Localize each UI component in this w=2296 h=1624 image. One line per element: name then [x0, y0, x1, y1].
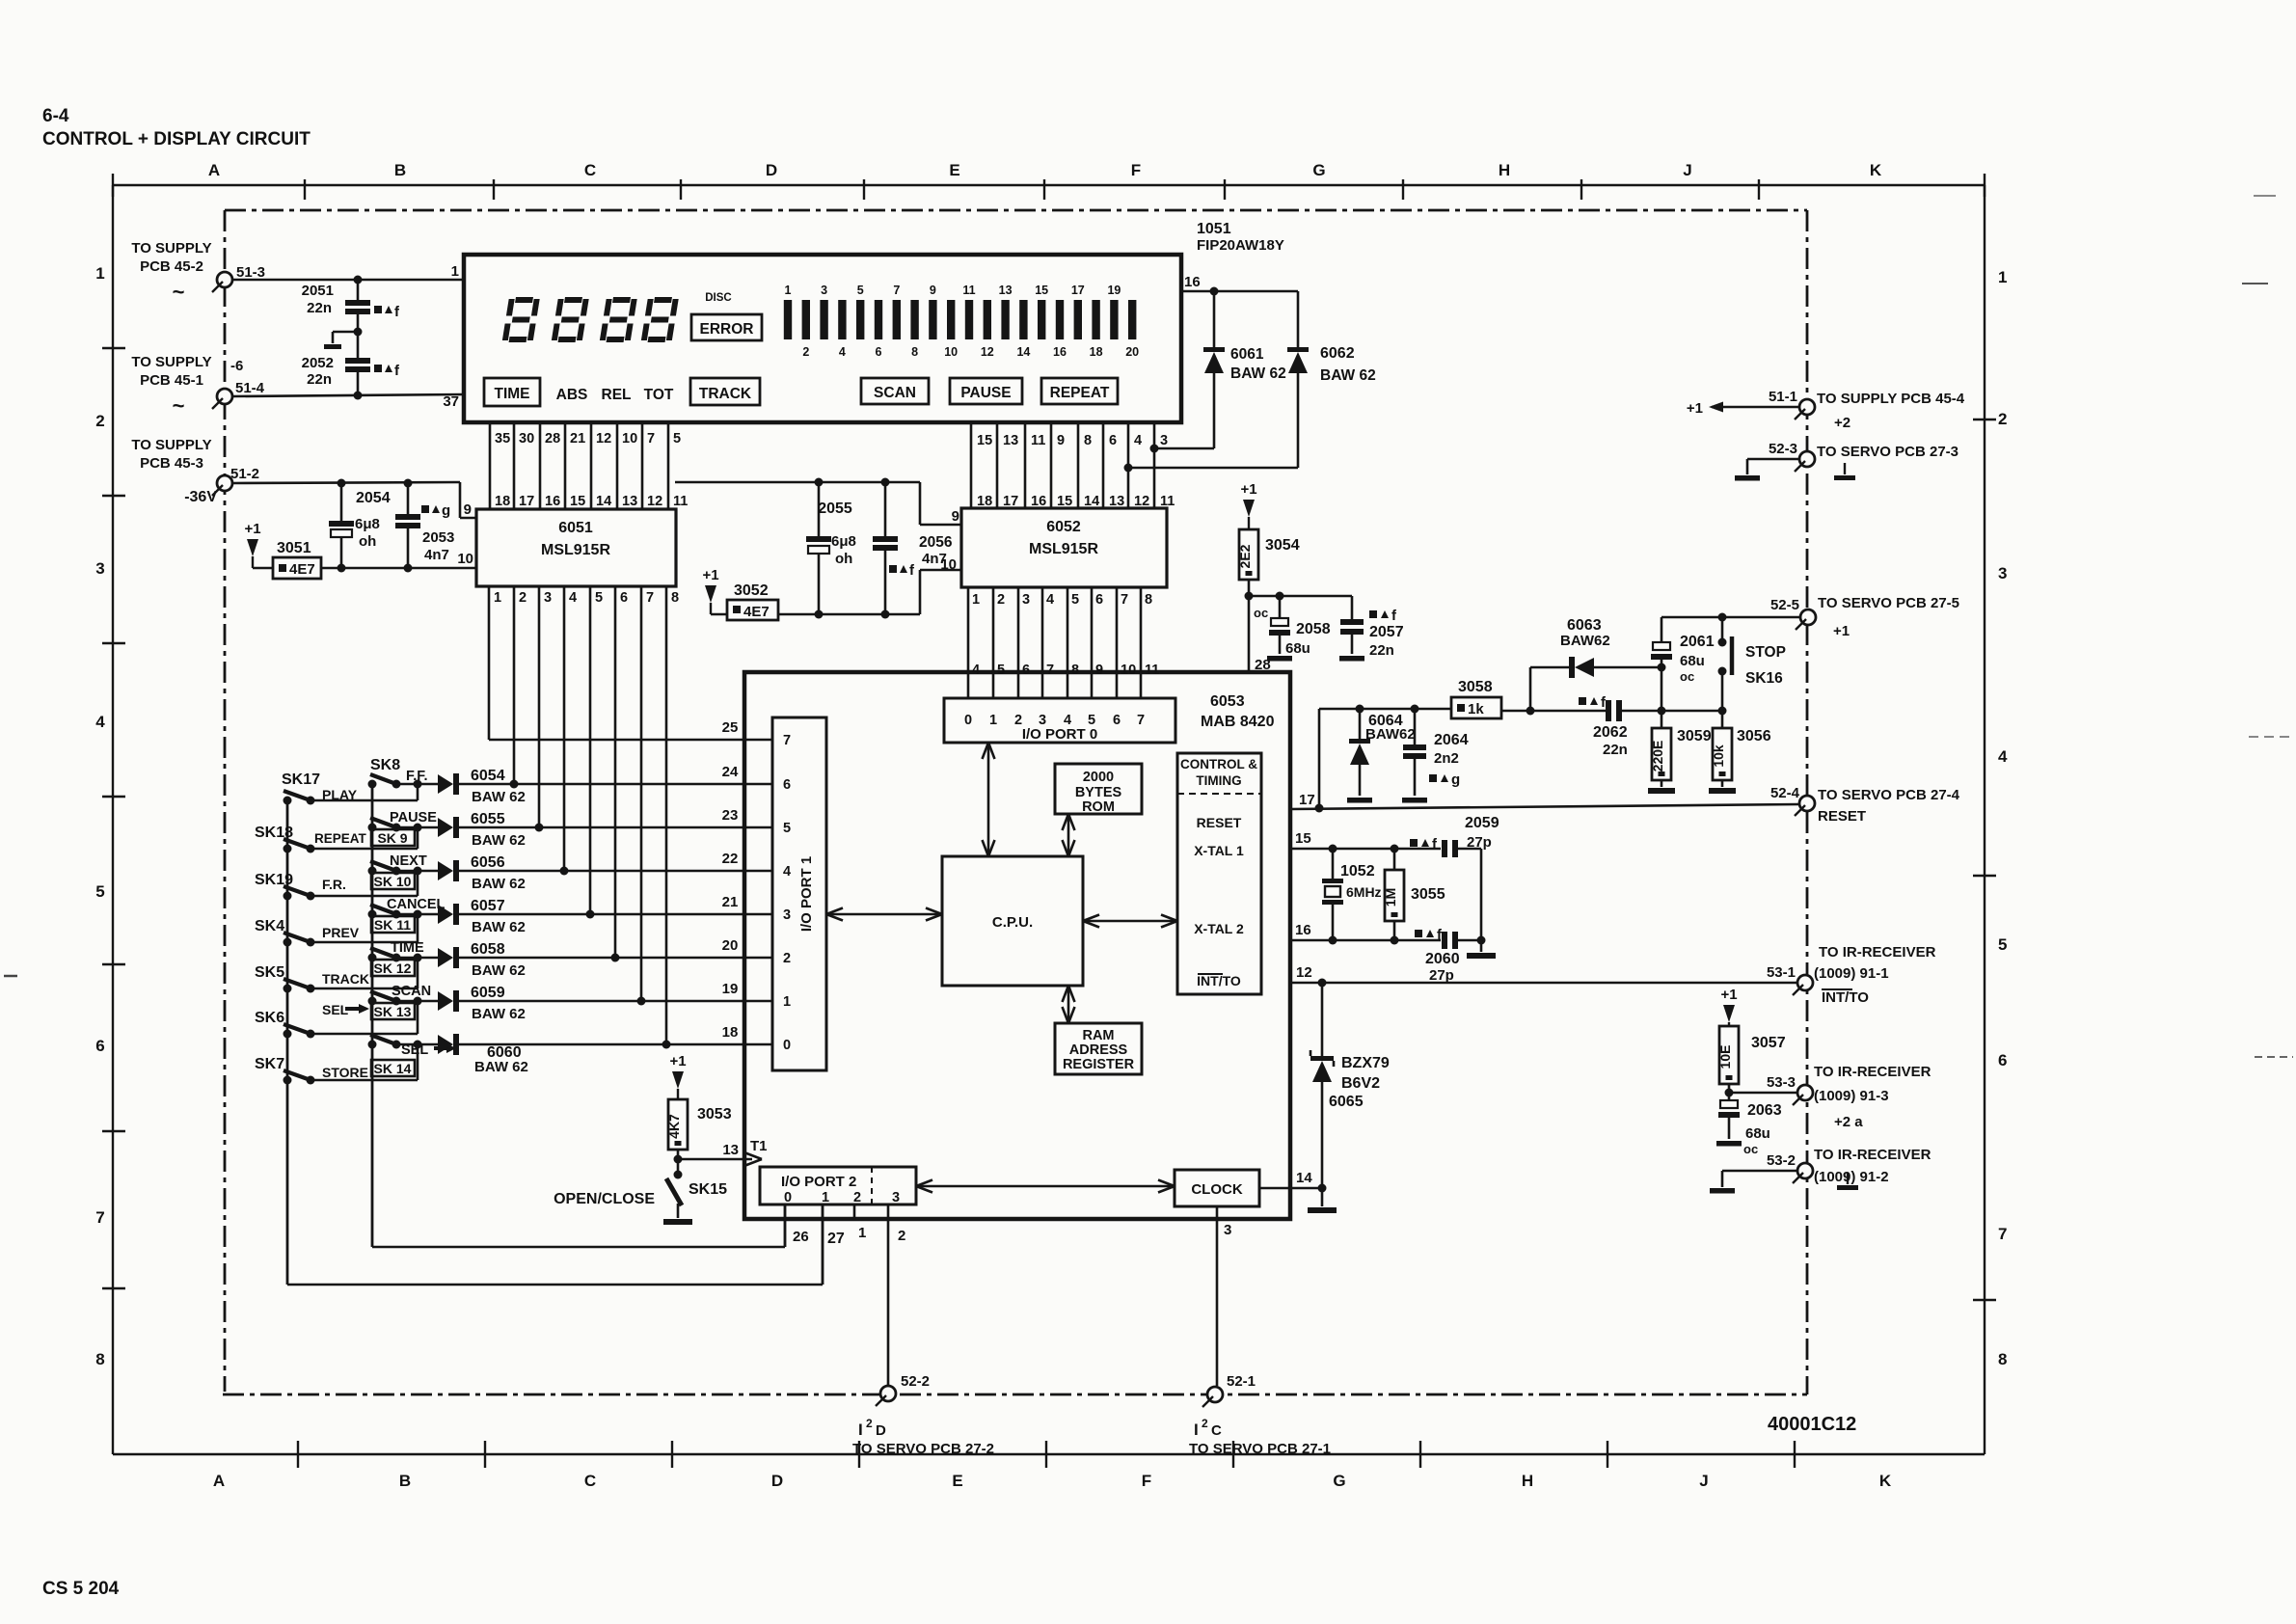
svg-text:PAUSE: PAUSE	[960, 385, 1011, 401]
svg-text:4: 4	[1998, 747, 2008, 766]
svg-text:1M: 1M	[1383, 888, 1398, 907]
svg-text:BAW 62: BAW 62	[472, 789, 526, 805]
svg-text:22n: 22n	[1603, 742, 1628, 758]
svg-text:PCB 45-3: PCB 45-3	[140, 455, 203, 472]
svg-text:K: K	[1870, 161, 1882, 179]
switch SK7 STORE	[255, 1056, 368, 1085]
svg-text:SK 12: SK 12	[374, 961, 412, 976]
svg-text:PCB 45-1: PCB 45-1	[140, 372, 203, 389]
diode 6055 BAW 62	[418, 811, 526, 849]
svg-text:REPEAT: REPEAT	[1050, 385, 1110, 401]
svg-text:14: 14	[1016, 345, 1030, 359]
svg-text:53-2: 53-2	[1767, 1152, 1796, 1169]
I2C label	[1189, 1417, 1331, 1457]
svg-text:oc: oc	[1743, 1142, 1758, 1156]
wire 6062 to display wire 4	[1124, 464, 1299, 473]
switch SK4 PREV	[255, 918, 360, 947]
wire SEL to diode row	[311, 1001, 418, 1034]
svg-text:2n2: 2n2	[1434, 750, 1459, 767]
svg-text:+1: +1	[702, 567, 718, 583]
svg-text:2060: 2060	[1425, 951, 1460, 967]
svg-text:g: g	[1451, 771, 1460, 788]
svg-text:(1009) 91-2: (1009) 91-2	[1814, 1169, 1889, 1185]
svg-text:3051: 3051	[277, 540, 311, 556]
svg-text:3054: 3054	[1265, 537, 1300, 554]
svg-text:PREV: PREV	[322, 925, 360, 940]
svg-text:2059: 2059	[1465, 815, 1499, 831]
junction 2060 2059 ground node	[1477, 936, 1486, 953]
svg-text:9: 9	[952, 508, 959, 525]
svg-text:22n: 22n	[1369, 642, 1394, 659]
svg-text:TO SUPPLY PCB 45-4: TO SUPPLY PCB 45-4	[1817, 391, 1965, 407]
svg-text:TOT: TOT	[644, 387, 674, 403]
resistor 3057	[1717, 1026, 1786, 1084]
svg-text:I: I	[1194, 1421, 1199, 1439]
wire diode 6060 to port 1	[459, 1041, 671, 1049]
svg-text:SK18: SK18	[255, 825, 293, 841]
connector 53-3	[1767, 1064, 1931, 1130]
stray scan marks	[4, 196, 2293, 1057]
grid ruler left	[95, 185, 125, 1454]
wire 51-3 to display pin 1	[232, 279, 464, 282]
svg-text:24: 24	[722, 764, 739, 780]
svg-text:15: 15	[977, 433, 992, 448]
svg-text:F: F	[1142, 1472, 1151, 1490]
svg-text:I: I	[858, 1421, 863, 1439]
svg-text:C: C	[1211, 1422, 1222, 1439]
svg-text:BAW 62: BAW 62	[472, 919, 526, 935]
svg-text:C.P.U.: C.P.U.	[992, 914, 1033, 931]
wire diode 6059 to port 1	[459, 997, 646, 1006]
svg-text:22: 22	[722, 851, 739, 867]
junction 3056 top	[1658, 707, 1727, 716]
power arrow +1 for 3051	[244, 521, 260, 568]
switch SK17 PLAY	[282, 771, 358, 805]
switch SK 14 SEL	[368, 1035, 457, 1076]
svg-text:SK7: SK7	[255, 1056, 284, 1072]
svg-text:NEXT: NEXT	[390, 853, 427, 869]
wire PREV to diode row	[311, 914, 418, 942]
CLOCK box	[1175, 1170, 1259, 1206]
power arrow +1 for 3052	[702, 567, 718, 614]
svg-text:7: 7	[646, 590, 654, 606]
svg-text:4: 4	[972, 663, 980, 678]
wire 3058 to stop network	[1501, 710, 1722, 713]
arrow CPU to control timing	[1083, 915, 1177, 928]
switch SK18 REPEAT	[255, 825, 367, 853]
svg-text:10: 10	[457, 551, 473, 567]
svg-text:10: 10	[1121, 663, 1136, 678]
SCAN indicator box	[861, 378, 929, 404]
svg-text:ADRESS: ADRESS	[1069, 1042, 1128, 1058]
svg-text:-6: -6	[230, 358, 243, 374]
connector 52-4	[1770, 785, 1960, 825]
svg-text:C: C	[584, 161, 596, 179]
diode 6058 BAW 62	[418, 941, 526, 979]
svg-text:+1: +1	[1720, 987, 1737, 1003]
svg-text:f: f	[909, 562, 915, 579]
svg-text:f: f	[394, 304, 400, 320]
svg-text:16: 16	[1295, 922, 1311, 938]
junction zener 6065	[1318, 979, 1327, 988]
ERROR indicator box	[691, 314, 762, 340]
svg-text:220E: 220E	[1650, 741, 1665, 772]
connector 52-2	[876, 1373, 930, 1406]
diode 6063 BAW62	[1530, 617, 1661, 678]
capacitor 2056	[873, 482, 953, 614]
svg-text:(1009) 91-3: (1009) 91-3	[1814, 1088, 1889, 1104]
svg-text:17: 17	[1299, 792, 1315, 808]
switch SK6 SEL	[255, 1002, 369, 1039]
junction diode 6055 input	[414, 824, 422, 832]
svg-text:20: 20	[722, 937, 739, 954]
svg-text:14: 14	[1296, 1170, 1312, 1186]
REPEAT indicator box	[1041, 378, 1118, 404]
svg-text:MSL915R: MSL915R	[1029, 541, 1098, 557]
track bargraph 1-20	[784, 284, 1139, 359]
svg-text:OPEN/CLOSE: OPEN/CLOSE	[554, 1191, 655, 1207]
I/O PORT 2 box	[760, 1167, 916, 1205]
junction 6061 top	[1210, 287, 1219, 296]
svg-text:TO IR-RECEIVER: TO IR-RECEIVER	[1814, 1064, 1931, 1080]
junction diode 6058 input	[414, 954, 422, 962]
svg-text:2: 2	[997, 592, 1005, 608]
resistor 3051	[253, 540, 321, 579]
wire reset pin 17 to 52-4	[1290, 792, 1799, 809]
svg-text:16: 16	[1184, 274, 1201, 290]
wires display pins 35/30/28/21/12/10/7/5 to 6051	[490, 423, 688, 509]
svg-text:7: 7	[95, 1208, 104, 1227]
wire diode 6054 to port 1	[459, 780, 519, 789]
svg-text:13: 13	[1003, 433, 1018, 448]
junction 2054 top	[338, 479, 346, 488]
grid ruler bottom	[113, 1441, 1985, 1490]
junction 2053 top	[404, 479, 413, 488]
capacitor 2062 series	[1579, 694, 1628, 758]
svg-text:52-2: 52-2	[901, 1373, 930, 1390]
crystal 1052 6MHz	[1322, 849, 1382, 940]
diode 6056 BAW 62	[418, 854, 526, 892]
wire 51-4 to display pin 37	[232, 394, 464, 396]
I2D label	[852, 1417, 994, 1457]
svg-text:6μ8: 6μ8	[831, 533, 856, 550]
resistor 3055	[1383, 849, 1445, 940]
svg-text:2051: 2051	[302, 283, 334, 299]
svg-text:52-1: 52-1	[1227, 1373, 1256, 1390]
svg-text:TO SUPPLY: TO SUPPLY	[131, 354, 211, 370]
svg-text:3056: 3056	[1737, 728, 1771, 744]
capacitor 2054	[329, 483, 391, 568]
junction 2061 bottom	[1658, 663, 1666, 712]
svg-text:SK5: SK5	[255, 964, 284, 981]
diode 6059 BAW 62	[418, 985, 526, 1022]
wire pin28 rail to 2058 2057	[1249, 592, 1352, 601]
svg-text:SK 11: SK 11	[374, 917, 411, 933]
svg-text:6: 6	[620, 590, 628, 606]
svg-text:7: 7	[1046, 663, 1054, 678]
svg-text:2061: 2061	[1680, 634, 1715, 650]
svg-text:CS 5 204: CS 5 204	[42, 1579, 120, 1599]
svg-text:SK19: SK19	[255, 872, 293, 888]
switch SK5 TRACK	[255, 964, 369, 993]
svg-text:9: 9	[1057, 433, 1065, 448]
wire F.R. to diode row	[311, 871, 418, 896]
svg-text:9: 9	[1095, 663, 1103, 678]
wire display pin 16 to diodes 6061 6062	[1181, 274, 1298, 291]
junction between 2051 and 2052	[354, 328, 363, 337]
ABS REL TOT labels	[556, 387, 674, 403]
grid ruler right	[1973, 185, 2008, 1454]
svg-text:+2: +2	[1834, 415, 1850, 431]
svg-text:~: ~	[173, 280, 185, 304]
svg-text:1: 1	[989, 713, 997, 728]
svg-text:6063: 6063	[1567, 617, 1602, 634]
svg-text:2: 2	[1202, 1417, 1208, 1430]
svg-text:5: 5	[783, 821, 791, 836]
TRACK indicator box	[690, 378, 760, 405]
IC 6053 MAB 8420 outline	[744, 672, 1290, 1219]
7-segment digit 3	[600, 297, 637, 342]
svg-text:5: 5	[673, 431, 681, 447]
svg-text:5: 5	[997, 663, 1005, 678]
svg-text:6: 6	[1022, 663, 1030, 678]
svg-text:17: 17	[1071, 284, 1085, 297]
svg-text:22n: 22n	[307, 371, 332, 388]
svg-text:INT/TO: INT/TO	[1197, 973, 1241, 988]
svg-text:1k: 1k	[1468, 701, 1484, 717]
DISC label	[705, 292, 731, 304]
wire REPEAT to diode row	[311, 827, 418, 849]
svg-text:2058: 2058	[1296, 621, 1331, 637]
svg-text:PCB 45-2: PCB 45-2	[140, 258, 203, 275]
svg-text:3: 3	[821, 284, 827, 297]
arrow port1 to CPU	[826, 908, 942, 921]
junction 2064	[1411, 705, 1419, 714]
svg-text:ABS: ABS	[556, 387, 588, 403]
svg-text:26: 26	[793, 1229, 809, 1245]
wire 2059 corner down	[1480, 849, 1483, 940]
svg-text:27p: 27p	[1467, 834, 1492, 851]
resistor 3054	[1237, 529, 1300, 580]
7-segment digit 2	[552, 297, 589, 342]
drawing number 40001C12	[1768, 1414, 1856, 1435]
svg-text:3052: 3052	[734, 582, 769, 599]
connector 51-3	[131, 240, 265, 304]
svg-text:6061: 6061	[1230, 346, 1264, 363]
svg-text:3059: 3059	[1677, 728, 1712, 744]
svg-text:SK 14: SK 14	[374, 1061, 412, 1076]
svg-text:BAW 62: BAW 62	[472, 962, 526, 979]
svg-text:6μ8: 6μ8	[355, 516, 380, 532]
svg-text:2064: 2064	[1434, 732, 1469, 748]
wire CLOCK pin 14	[1259, 1170, 1322, 1188]
connector 52-3	[1735, 441, 1958, 481]
6052 bottom pin wires to I/O port 0	[968, 587, 1159, 698]
power arrow +1 for 3054	[1240, 481, 1256, 529]
7-segment digit 1	[502, 297, 540, 342]
svg-text:A: A	[213, 1472, 225, 1490]
svg-text:2: 2	[898, 1228, 905, 1244]
ground for 3056	[1709, 780, 1736, 794]
svg-text:3053: 3053	[697, 1106, 732, 1123]
middle switch common bus	[371, 782, 374, 1247]
svg-text:2: 2	[783, 951, 791, 966]
svg-text:8: 8	[95, 1350, 104, 1368]
svg-text:2056: 2056	[919, 534, 953, 551]
ground for 2064	[1402, 798, 1427, 803]
switch SK15 OPEN/CLOSE	[554, 1159, 727, 1207]
junction diode 6056 input	[414, 867, 422, 876]
junction SK16 top	[1718, 613, 1727, 622]
connector 51-4	[131, 354, 264, 418]
svg-text:SK 10: SK 10	[374, 874, 412, 889]
svg-text:CONTROL + DISPLAY CIRCUIT: CONTROL + DISPLAY CIRCUIT	[42, 129, 311, 149]
svg-text:D: D	[876, 1422, 886, 1439]
svg-text:6059: 6059	[471, 985, 505, 1001]
page title	[42, 106, 311, 149]
svg-text:SK6: SK6	[255, 1010, 284, 1026]
wire X-TAL2 pin 16	[1290, 922, 1441, 940]
arrow port2 to CLOCK	[916, 1180, 1175, 1193]
svg-text:oc: oc	[1680, 669, 1694, 684]
svg-text:REGISTER: REGISTER	[1063, 1057, 1135, 1072]
svg-text:21: 21	[570, 431, 585, 447]
svg-text:6053: 6053	[1210, 693, 1245, 710]
ground for 2057	[1339, 656, 1364, 662]
svg-text:RESET: RESET	[1197, 815, 1242, 830]
svg-text:2057: 2057	[1369, 624, 1404, 640]
svg-text:10k: 10k	[1711, 744, 1726, 768]
arrow CPU to RAM	[1063, 986, 1075, 1023]
svg-text:D: D	[771, 1472, 783, 1490]
wire middle bus to I/O port 2 bit 0	[372, 1204, 785, 1247]
svg-text:BAW 62: BAW 62	[474, 1059, 528, 1075]
svg-text:10: 10	[940, 556, 957, 573]
junction 2056 bottom	[881, 610, 890, 619]
svg-text:BAW 62: BAW 62	[1230, 365, 1286, 382]
junction reset rail riser	[1315, 709, 1324, 813]
svg-text:5: 5	[95, 882, 104, 901]
svg-text:2052: 2052	[302, 355, 334, 371]
PAUSE indicator box	[950, 378, 1022, 404]
svg-text:X-TAL 2: X-TAL 2	[1194, 921, 1244, 936]
wire PLAY to diode row	[311, 784, 418, 800]
svg-text:18: 18	[722, 1024, 739, 1041]
capacitor 2063	[1718, 1093, 1782, 1156]
svg-text:C: C	[584, 1472, 596, 1490]
svg-text:+1: +1	[244, 521, 260, 537]
junction 3055 bottom	[1391, 936, 1399, 945]
svg-text:9: 9	[464, 501, 472, 518]
svg-text:19: 19	[722, 981, 739, 997]
IC 6052 MSL915R	[961, 508, 1167, 587]
wire 52-5 rail	[1661, 616, 1799, 619]
diode 6054 BAW 62	[418, 768, 526, 805]
wire T1 to 6053 pin 13	[678, 1138, 768, 1166]
svg-text:12: 12	[596, 431, 611, 447]
capacitor 2061	[1651, 617, 1715, 684]
svg-text:G: G	[1333, 1472, 1345, 1490]
svg-text:5: 5	[1071, 592, 1079, 608]
I/O PORT 1 box	[772, 717, 826, 1070]
svg-text:2: 2	[1014, 713, 1022, 728]
svg-text:2: 2	[519, 590, 527, 606]
svg-text:CLOCK: CLOCK	[1191, 1181, 1242, 1198]
wire diode 6056 to port 1	[459, 867, 569, 876]
ground for 2058	[1267, 656, 1292, 662]
svg-text:21: 21	[722, 894, 739, 910]
svg-text:1: 1	[858, 1225, 866, 1241]
svg-text:6052: 6052	[1046, 519, 1081, 535]
switch SK 9 PAUSE	[368, 810, 438, 846]
svg-text:6: 6	[1998, 1051, 2007, 1069]
svg-text:BZX79: BZX79	[1341, 1055, 1390, 1071]
svg-text:3055: 3055	[1411, 886, 1445, 903]
wire diode 6057 to port 1	[459, 910, 595, 919]
svg-text:SK 9: SK 9	[377, 830, 407, 846]
ground for 6065	[1308, 1207, 1337, 1213]
svg-text:BAW62: BAW62	[1560, 633, 1610, 649]
svg-text:7: 7	[1998, 1225, 2007, 1243]
svg-text:8: 8	[1084, 433, 1092, 448]
junction 2055 top	[815, 478, 824, 487]
svg-text:9: 9	[930, 284, 936, 297]
svg-text:8: 8	[1071, 663, 1079, 678]
svg-text:4: 4	[839, 345, 846, 359]
svg-text:6: 6	[1109, 433, 1117, 448]
dash-dot PCB border	[223, 210, 1807, 1394]
svg-text:TO SERVO PCB 27-5: TO SERVO PCB 27-5	[1818, 595, 1959, 611]
svg-text:+1: +1	[1240, 481, 1256, 498]
svg-text:18: 18	[1090, 345, 1103, 359]
svg-text:1: 1	[783, 994, 791, 1010]
svg-text:3057: 3057	[1751, 1035, 1786, 1051]
svg-text:28: 28	[545, 431, 560, 447]
svg-text:3: 3	[1160, 433, 1168, 448]
svg-text:35: 35	[495, 431, 510, 447]
arrow port0 to CPU	[983, 743, 995, 856]
svg-text:1: 1	[451, 263, 459, 280]
svg-text:T1: T1	[750, 1138, 768, 1154]
wire CLOCK pin 3 to 52-1	[1217, 1206, 1231, 1386]
svg-text:6055: 6055	[471, 811, 505, 827]
svg-text:3: 3	[95, 559, 104, 578]
svg-text:BAW 62: BAW 62	[472, 1006, 526, 1022]
svg-text:6: 6	[783, 777, 791, 793]
svg-text:20: 20	[1125, 345, 1139, 359]
svg-text:SK16: SK16	[1745, 670, 1783, 687]
svg-text:J: J	[1683, 161, 1691, 179]
svg-text:2: 2	[866, 1417, 873, 1430]
svg-text:6-4: 6-4	[42, 106, 69, 126]
svg-text:1: 1	[785, 284, 792, 297]
svg-text:SK4: SK4	[255, 918, 284, 934]
connector 53-1	[1767, 944, 1936, 1006]
svg-text:TO SUPPLY: TO SUPPLY	[131, 437, 211, 453]
svg-text:1051: 1051	[1197, 221, 1231, 237]
wire 3052 rail to 6052 pin 10	[778, 556, 961, 614]
svg-text:2: 2	[802, 345, 809, 359]
junction diode 6060 input	[414, 1041, 422, 1049]
svg-text:4: 4	[783, 864, 791, 880]
svg-text:7: 7	[647, 431, 655, 447]
svg-text:1: 1	[822, 1190, 829, 1205]
svg-text:8: 8	[671, 590, 679, 606]
svg-text:H: H	[1499, 161, 1510, 179]
wire port2 bit3 to 52-2	[888, 1204, 905, 1386]
wire 3054 to pin 28	[1245, 580, 1271, 673]
junction T1 node	[674, 1150, 683, 1164]
